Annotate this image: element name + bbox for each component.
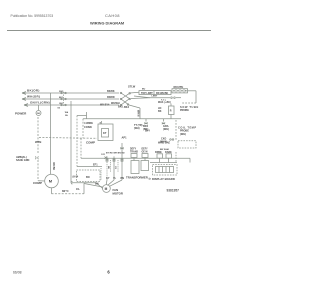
svg-text:PROBE: PROBE	[180, 109, 189, 112]
svg-text:BK: BK	[158, 110, 162, 113]
svg-text:GY: GY	[106, 177, 110, 180]
svg-text:66/08: 66/08	[13, 271, 22, 275]
svg-text:DRNE: DRNE	[155, 151, 162, 154]
svg-text:WH(OR): WH(OR)	[27, 94, 40, 98]
svg-text:82°C: 82°C	[62, 189, 70, 193]
svg-text:TOP LIMIT: TOP LIMIT	[141, 92, 153, 95]
svg-text:60: 60	[58, 108, 61, 110]
svg-text:GD: GD	[37, 113, 41, 115]
svg-text:WH N: WH N	[136, 110, 139, 117]
svg-text:BN: BN	[95, 183, 99, 186]
svg-text:OE M: OE M	[142, 151, 148, 153]
svg-text:WTB: WTB	[35, 140, 41, 144]
svg-text:DEFY: DEFY	[142, 149, 149, 151]
svg-text:WH BY4: WH BY4	[100, 104, 110, 107]
svg-text:BK/BK: BK/BK	[107, 90, 115, 93]
svg-text:RD BK: RD BK	[52, 163, 55, 171]
svg-text:BN: BN	[121, 177, 125, 180]
svg-text:LIMIT: LIMIT	[152, 96, 158, 98]
svg-text:BK(OR): BK(OR)	[27, 88, 40, 92]
svg-text:(WH): (WH)	[180, 133, 186, 136]
svg-text:CONN: CONN	[84, 125, 92, 129]
svg-text:Publication No. 5995513703: Publication No. 5995513703	[11, 14, 54, 18]
svg-text:COMP: COMP	[86, 140, 95, 144]
svg-text:TRANSFORMER: TRANSFORMER	[126, 176, 148, 180]
svg-text:W4: W4	[65, 111, 69, 114]
svg-text:MOTOR: MOTOR	[113, 192, 123, 196]
svg-text:COMP: COMP	[33, 181, 42, 185]
svg-text:RD/RD: RD/RD	[107, 96, 115, 99]
svg-text:WH4 (+-BK): WH4 (+-BK)	[158, 101, 171, 104]
svg-text:DISPLAY BOARD: DISPLAY BOARD	[152, 177, 175, 181]
svg-text:ROUTE: ROUTE	[174, 85, 184, 89]
svg-text:(WH): (WH)	[134, 127, 140, 130]
svg-text:SAOE GRN: SAOE GRN	[16, 159, 30, 162]
svg-text:M: M	[105, 187, 108, 191]
svg-text:AP1: AP1	[122, 136, 128, 140]
svg-text:BU: BU	[142, 88, 146, 90]
svg-text:STLW: STLW	[128, 85, 136, 89]
svg-text:POWER: POWER	[15, 112, 27, 116]
svg-text:BL: BL	[65, 115, 69, 117]
svg-text:GN/YL(GRN): GN/YL(GRN)	[30, 101, 50, 105]
svg-text:DARE: DARE	[165, 151, 172, 154]
svg-text:WIRE OAE: WIRE OAE	[158, 142, 170, 145]
svg-text:KT: KT	[103, 131, 107, 135]
svg-text:YL: YL	[113, 177, 117, 180]
svg-text:(WH): (WH)	[163, 128, 169, 131]
svg-text:TRANS: TRANS	[130, 150, 138, 153]
svg-text:BK: BK	[107, 166, 109, 170]
svg-text:(o: (o	[149, 177, 152, 180]
svg-text:BO: BO	[86, 176, 90, 179]
svg-text:BK4: BK4	[124, 106, 130, 109]
svg-text:WIRING DIAGRAM: WIRING DIAGRAM	[90, 20, 124, 25]
svg-text:(H 04: (H 04	[73, 175, 79, 178]
svg-text:6: 6	[107, 269, 110, 274]
svg-text:EF1: EF1	[93, 164, 98, 167]
svg-text:BK/L: BK/L	[118, 106, 124, 109]
svg-text:BY RD WH BN RD: BY RD WH BN RD	[106, 152, 125, 154]
svg-text:CL: CL	[76, 187, 80, 191]
svg-text:CAH08: CAH08	[105, 13, 120, 18]
svg-text:BK4: BK4	[145, 130, 150, 133]
svg-text:M: M	[49, 179, 53, 184]
svg-text:RD WH/BK: RD WH/BK	[156, 92, 168, 95]
svg-text:R: R	[170, 110, 172, 113]
svg-text:DEFY: DEFY	[130, 149, 137, 151]
svg-text:4 WIRE: 4 WIRE	[84, 121, 93, 125]
svg-text:9381957: 9381957	[167, 188, 180, 192]
